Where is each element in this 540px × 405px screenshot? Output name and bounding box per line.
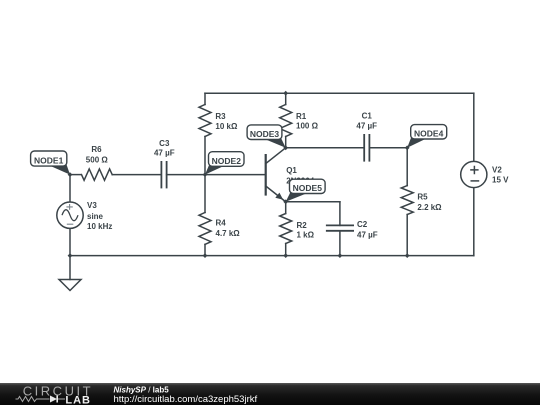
svg-text:Q1: Q1: [286, 166, 297, 175]
svg-text:V3: V3: [87, 201, 97, 210]
svg-text:1 kΩ: 1 kΩ: [297, 231, 315, 240]
svg-text:NODE1: NODE1: [34, 155, 64, 165]
svg-text:R1: R1: [296, 112, 307, 121]
svg-text:LAB: LAB: [65, 395, 91, 405]
svg-text:100 Ω: 100 Ω: [296, 122, 319, 131]
svg-text:R3: R3: [215, 112, 226, 121]
svg-text:http://circuitlab.com/ca3zeph5: http://circuitlab.com/ca3zeph53jrkf: [114, 394, 258, 405]
svg-text:NODE5: NODE5: [293, 183, 323, 193]
svg-text:47 µF: 47 µF: [356, 121, 377, 130]
svg-text:10 kΩ: 10 kΩ: [215, 122, 238, 131]
svg-text:C3: C3: [159, 139, 170, 148]
svg-text:NODE3: NODE3: [250, 129, 280, 139]
svg-text:47 µF: 47 µF: [154, 149, 175, 158]
svg-text:47 µF: 47 µF: [357, 230, 378, 239]
svg-text:C2: C2: [357, 220, 368, 229]
svg-text:10 kHz: 10 kHz: [87, 222, 112, 231]
svg-text:500 Ω: 500 Ω: [86, 155, 109, 164]
svg-text:V2: V2: [492, 166, 502, 175]
svg-text:R5: R5: [417, 193, 428, 202]
svg-text:R2: R2: [297, 221, 308, 230]
svg-text:R6: R6: [91, 145, 102, 154]
svg-text:15 V: 15 V: [492, 176, 509, 185]
svg-text:sine: sine: [87, 212, 104, 221]
svg-text:NODE2: NODE2: [212, 156, 242, 166]
svg-text:C1: C1: [362, 111, 373, 120]
svg-text:2.2 kΩ: 2.2 kΩ: [417, 203, 442, 212]
svg-text:4.7 kΩ: 4.7 kΩ: [216, 229, 241, 238]
svg-text:NODE4: NODE4: [414, 129, 444, 139]
svg-text:R4: R4: [216, 219, 227, 228]
